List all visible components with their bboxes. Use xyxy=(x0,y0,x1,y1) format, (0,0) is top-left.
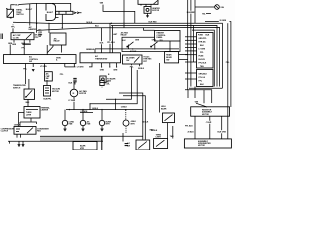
svg-text:14 BLK: 14 BLK xyxy=(92,107,99,110)
svg-text:MOTOR: MOTOR xyxy=(198,145,205,147)
svg-text:BLAUT: BLAUT xyxy=(47,11,54,14)
svg-text:CLUTCH: CLUTCH xyxy=(1,131,9,133)
svg-text:BLK: BLK xyxy=(122,40,126,42)
svg-text:PPL BLK: PPL BLK xyxy=(107,42,115,44)
svg-text:PPL LB: PPL LB xyxy=(199,77,206,79)
svg-text:BLK: BLK xyxy=(26,102,30,104)
svg-text:BLK RED: BLK RED xyxy=(149,22,158,24)
svg-text:14 BLK: 14 BLK xyxy=(86,21,93,24)
svg-text:BLK/PPL: BLK/PPL xyxy=(44,98,53,100)
svg-text:FUSE: FUSE xyxy=(198,35,204,37)
svg-text:MOTOR: MOTOR xyxy=(79,93,86,95)
svg-text:BLWR: BLWR xyxy=(161,108,167,110)
svg-text:FUSE: FUSE xyxy=(199,56,205,58)
svg-text:A/T SW: A/T SW xyxy=(130,50,137,53)
svg-text:HTR A/C: HTR A/C xyxy=(199,41,207,44)
svg-text:BLU: BLU xyxy=(15,5,19,7)
svg-text:LIMITER: LIMITER xyxy=(41,110,49,112)
svg-text:BLK/RED: BLK/RED xyxy=(187,12,196,14)
svg-text:20 BLK: 20 BLK xyxy=(188,132,195,134)
svg-text:MTR: MTR xyxy=(80,148,85,150)
svg-text:THERMOSTAT: THERMOSTAT xyxy=(95,57,108,60)
svg-text:SW: SW xyxy=(38,36,41,38)
svg-text:BLOCK: BLOCK xyxy=(199,59,206,61)
svg-text:SWITCH: SWITCH xyxy=(13,87,21,89)
svg-text:HEATER: HEATER xyxy=(29,28,37,31)
svg-text:BLK GRN: BLK GRN xyxy=(218,132,227,134)
svg-text:SW: SW xyxy=(126,60,129,62)
svg-text:GRN PPL: GRN PPL xyxy=(199,38,208,40)
svg-text:GRN-BLK: GRN-BLK xyxy=(199,73,208,75)
svg-text:MOTOR: MOTOR xyxy=(202,114,209,116)
svg-text:LMTR: LMTR xyxy=(156,137,162,139)
svg-text:CL SW: CL SW xyxy=(13,37,19,39)
svg-text:20 GRN: 20 GRN xyxy=(220,20,227,22)
svg-text:14 BLK: 14 BLK xyxy=(121,106,128,109)
svg-text:GRN: GRN xyxy=(113,70,118,72)
svg-text:SW: SW xyxy=(166,59,169,61)
svg-text:ORN: ORN xyxy=(152,40,157,42)
svg-text:RELAY: RELAY xyxy=(54,40,61,43)
svg-text:MTR: MTR xyxy=(106,124,111,126)
svg-text:RELAY: RELAY xyxy=(121,34,128,37)
svg-text:BLK/LT: BLK/LT xyxy=(26,9,33,11)
svg-text:LT GRN: LT GRN xyxy=(199,49,206,51)
svg-text:SW: SW xyxy=(46,78,49,80)
svg-text:-7 BLK: -7 BLK xyxy=(206,122,212,124)
svg-text:MTR: MTR xyxy=(131,123,136,125)
svg-text:GRN: GRN xyxy=(12,44,17,46)
svg-text:SWITCH: SWITCH xyxy=(16,14,24,16)
svg-text:14 BLK: 14 BLK xyxy=(142,121,149,124)
svg-text:SW: SW xyxy=(29,61,32,63)
svg-text:20 BLK: 20 BLK xyxy=(138,68,145,70)
svg-text:LT GRN: LT GRN xyxy=(40,66,47,68)
svg-text:GRN: GRN xyxy=(8,43,13,45)
svg-text:BLK: BLK xyxy=(100,43,104,45)
svg-text:GRN: GRN xyxy=(135,40,140,42)
svg-text:MOTOR: MOTOR xyxy=(52,91,59,93)
svg-text:LT GRN: LT GRN xyxy=(68,100,75,102)
svg-text:20 BLK: 20 BLK xyxy=(151,130,158,132)
svg-text:SW: SW xyxy=(127,145,130,147)
svg-text:PANEL: PANEL xyxy=(157,36,164,39)
svg-text:GRN: GRN xyxy=(100,70,105,72)
svg-text:LT GRN: LT GRN xyxy=(81,111,88,113)
svg-text:LT GRN: LT GRN xyxy=(77,67,84,69)
svg-text:MOTOR: MOTOR xyxy=(152,10,159,12)
svg-text:LMTR: LMTR xyxy=(26,114,32,116)
svg-text:GRN/BLK: GRN/BLK xyxy=(86,49,95,51)
svg-text:PPL BLK: PPL BLK xyxy=(185,126,193,128)
svg-text:PPL BLK: PPL BLK xyxy=(199,63,207,65)
